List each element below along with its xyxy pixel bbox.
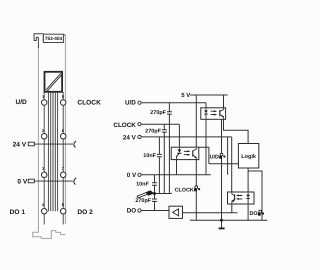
- svg-text:U/D: U/D: [15, 99, 27, 106]
- wire bundle: [48, 92, 57, 211]
- terminal circle U/D: [138, 101, 141, 104]
- svg-text:CLOCK: CLOCK: [113, 122, 136, 129]
- terminal circle 4: [41, 208, 47, 214]
- junction dot earth: [153, 192, 156, 195]
- wire CLOCK horizontal: [141, 123, 179, 125]
- earth bus: [155, 193, 172, 195]
- svg-text:753-404: 753-404: [45, 36, 63, 41]
- svg-text:Logik: Logik: [241, 154, 257, 160]
- module body left edge: [37, 46, 39, 224]
- capacitor bars: [152, 112, 172, 202]
- opto-coupler U3 (mirrored): [228, 192, 255, 204]
- marking field diagonal: [46, 73, 62, 91]
- terminal circle 2: [41, 134, 47, 140]
- svg-text:5: 5: [62, 94, 65, 99]
- wire 0V horizontal: [141, 174, 211, 176]
- opto U2 output vertical CLOCK: [195, 160, 197, 221]
- 24V branch vertical: [227, 137, 229, 175]
- power jumper 24V: [28, 142, 34, 146]
- svg-text:6: 6: [62, 128, 65, 133]
- capacitor branch 24V: [158, 137, 160, 194]
- opto-coupler U2: [171, 147, 199, 159]
- capacitor C4 10nF bars: [152, 183, 157, 185]
- wire U/D horizontal: [141, 102, 206, 104]
- capacitor C3 10nF bars: [157, 154, 162, 156]
- wire 24V drop to opto U3: [231, 137, 233, 192]
- svg-text:10nF: 10nF: [143, 153, 156, 159]
- wire CLOCK drop to opto U2: [178, 124, 180, 147]
- pulse icon DO: [258, 210, 264, 215]
- svg-text:24 V: 24 V: [123, 135, 137, 142]
- svg-text:CLOCK: CLOCK: [175, 187, 194, 193]
- capacitor C5 270pF bars: [152, 199, 157, 201]
- output driver buffer: [169, 206, 183, 218]
- Logik output branch to DO vertical: [248, 171, 262, 220]
- 5V drop to opto U1: [223, 95, 225, 108]
- 5V drop to opto U2: [195, 95, 197, 147]
- module foot: [33, 224, 66, 238]
- wire U/D drop to opto U1: [205, 103, 207, 108]
- terminal circle 24V: [138, 135, 141, 138]
- module body right edge: [64, 35, 66, 224]
- svg-text:10nF: 10nF: [136, 181, 149, 187]
- svg-text:270pF: 270pF: [150, 110, 166, 116]
- terminal circle 0V: [138, 173, 141, 176]
- pulse icon CLOCK: [194, 186, 200, 191]
- opto U2 collector corner: [199, 147, 209, 164]
- svg-text:270pF: 270pF: [145, 128, 161, 134]
- svg-text:DO 2: DO 2: [77, 209, 93, 216]
- svg-text:DO: DO: [250, 211, 258, 217]
- opto U1 cathode to 0V: [205, 119, 207, 175]
- label box 753-404: [43, 34, 63, 42]
- capacitor C2 270pF bars: [162, 130, 167, 132]
- opto-coupler U1: [201, 108, 226, 120]
- terminal circle 8: [60, 208, 65, 214]
- driver output line: [183, 212, 238, 214]
- U/D line into Logik: [209, 163, 239, 165]
- terminal circle 6: [60, 134, 65, 140]
- opto U1 output to Logik: [224, 119, 249, 143]
- svg-text:7: 7: [62, 166, 65, 171]
- wire 24V horizontal: [141, 136, 231, 138]
- capacitor C1 270pF bars: [167, 112, 172, 114]
- svg-text:U/D: U/D: [210, 155, 219, 161]
- svg-text:U/D: U/D: [125, 100, 136, 107]
- svg-text:8: 8: [62, 202, 65, 207]
- junction dot ground: [220, 219, 223, 222]
- label box gray tab: [43, 35, 44, 41]
- opto U3 cathode down: [247, 204, 249, 220]
- svg-text:24 V: 24 V: [13, 141, 27, 148]
- svg-text:DO 1: DO 1: [10, 209, 26, 216]
- wire DO horizontal: [141, 210, 169, 212]
- capacitor branch CLOCK: [163, 124, 165, 193]
- svg-text:CLOCK: CLOCK: [77, 99, 101, 106]
- svg-text:0 V: 0 V: [17, 178, 27, 185]
- 5V rail: [190, 94, 228, 96]
- power jumper 0V: [28, 179, 34, 183]
- Logik box U4: [238, 144, 258, 169]
- opto U1 emitter long vertical: [221, 119, 223, 220]
- terminal circle 5: [60, 100, 65, 106]
- capacitor branch 0V/DO: [154, 175, 156, 211]
- terminal circle 7: [60, 172, 65, 178]
- opto U3 emitter down: [231, 204, 233, 213]
- pulse icon U/D: [219, 153, 225, 158]
- module top hook: [34, 34, 44, 48]
- opto U2 cathode to 0V: [176, 160, 178, 175]
- ground rail: [190, 219, 267, 221]
- terminal circle 1: [41, 100, 47, 106]
- capacitor branch U/D: [168, 103, 170, 194]
- terminal circle DO: [138, 209, 141, 212]
- terminal circle CLOCK: [138, 123, 141, 126]
- svg-text:DO: DO: [127, 208, 137, 215]
- Logik output down: [247, 168, 249, 192]
- svg-text:270pF: 270pF: [135, 198, 151, 204]
- wire right column: [62, 92, 64, 225]
- svg-text:0 V: 0 V: [127, 172, 137, 179]
- earth blade symbol: [137, 191, 155, 198]
- wire left column: [43, 92, 45, 225]
- terminal circle 3: [41, 172, 47, 178]
- marking field box: [45, 72, 63, 92]
- ground stub: [221, 220, 223, 228]
- ground bar: [219, 227, 225, 229]
- svg-text:5 V: 5 V: [181, 92, 190, 99]
